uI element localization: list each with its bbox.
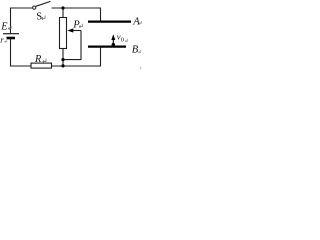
node junction dot bottom wire — [61, 64, 64, 67]
wire top-left from battery to switch — [11, 8, 33, 34]
battery cell short plate (-) — [7, 37, 16, 40]
battery cell long plate (+) — [3, 33, 19, 35]
paragraph mark after S — [42, 16, 45, 20]
wire wiper tail down and left to junction — [63, 31, 81, 60]
paragraph mark after r — [5, 40, 7, 43]
svg-text:P: P — [72, 19, 80, 30]
svg-text:B: B — [132, 45, 139, 56]
resistor R body — [31, 63, 52, 68]
svg-text:r: r — [0, 35, 4, 45]
capacitor plate B — [88, 45, 126, 47]
paragraph mark after R — [43, 59, 46, 63]
wire potentiometer bottom to bottom wire — [62, 49, 64, 67]
stray mark bottom right — [139, 67, 142, 70]
potentiometer P body — [60, 18, 67, 49]
paragraph mark after P — [79, 24, 82, 28]
node junction dot wiper join — [61, 58, 64, 61]
switch S1 blade — [36, 1, 51, 6]
potentiometer P wiper arrow — [73, 30, 82, 32]
node junction dot at top of potentiometer branch — [61, 6, 64, 9]
wire junction to potentiometer top — [62, 8, 64, 18]
svg-text:S: S — [36, 12, 42, 23]
svg-text:E: E — [0, 22, 8, 33]
capacitor plate A — [88, 21, 131, 23]
paragraph mark after v0 — [125, 39, 128, 42]
paragraph mark after A — [139, 21, 141, 24]
charged particle on plate B — [112, 43, 115, 46]
svg-text:A: A — [132, 16, 140, 27]
paragraph mark after E — [8, 26, 11, 30]
svg-text:0: 0 — [121, 37, 124, 44]
paragraph mark after B — [139, 50, 141, 53]
wire top-right from switch to corner and down to plate A — [52, 8, 101, 21]
wire bottom from resistor R to plate B riser — [52, 48, 101, 67]
velocity arrow v0 — [112, 39, 114, 44]
svg-text:R: R — [34, 54, 42, 65]
wire battery negative down to bottom wire — [11, 39, 32, 67]
switch S1 circle contact — [33, 6, 36, 9]
